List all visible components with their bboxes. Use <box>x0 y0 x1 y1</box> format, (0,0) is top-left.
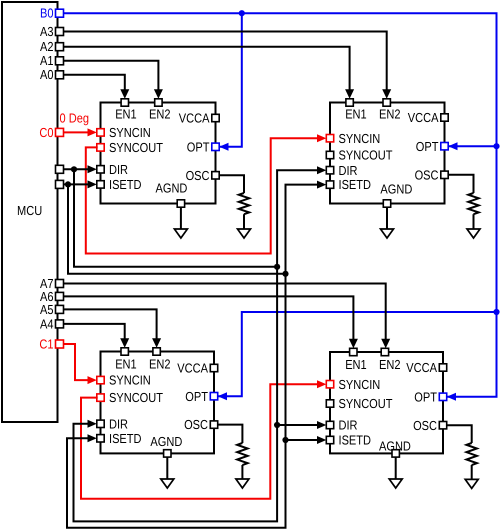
MCU pin C0 <box>39 125 63 140</box>
svg-text:OSC: OSC <box>413 418 437 433</box>
U2 pin DIR <box>326 163 357 178</box>
svg-text:A1: A1 <box>40 53 54 68</box>
wire U3 SYNCOUT to U4 SYNCIN <box>81 380 326 499</box>
wire A6 to U4 EN1 <box>63 296 358 348</box>
MCU pin A5 <box>40 302 64 317</box>
junction ISETD at MCU branch <box>65 181 71 187</box>
U2 pin ISETD <box>326 177 371 192</box>
U2 pin SYNCIN <box>326 131 380 146</box>
svg-text:AGND: AGND <box>380 181 412 196</box>
svg-text:ISETD: ISETD <box>109 431 142 446</box>
MCU pin B0 <box>40 6 64 21</box>
U3 pin AGND <box>150 434 182 457</box>
U1 pin EN1 <box>115 99 137 122</box>
wire MCU to U1 DIR <box>63 165 97 173</box>
svg-text:ISETD: ISETD <box>109 177 142 192</box>
wire A5 to U3 EN2 <box>63 309 161 347</box>
junction B0 branch at top <box>239 10 245 16</box>
junction DIR at MCU branch <box>71 166 77 172</box>
wire A2 to U2 EN1 <box>63 47 354 99</box>
U3 pin EN2 <box>149 348 171 372</box>
svg-text:OPT: OPT <box>187 139 210 154</box>
svg-text:SYNCIN: SYNCIN <box>339 377 381 392</box>
ground below R3 <box>236 479 249 488</box>
wire U3 AGND to ground <box>166 457 168 479</box>
U1 pin ISETD <box>97 177 142 192</box>
svg-text:DIR: DIR <box>109 416 128 431</box>
wire DIR branch to U4 DIR <box>277 421 326 429</box>
U2 pin EN1 <box>345 99 367 122</box>
svg-text:EN1: EN1 <box>345 107 367 122</box>
ground below U3 AGND <box>161 479 174 488</box>
svg-text:EN1: EN1 <box>345 357 367 372</box>
U1 pin AGND <box>156 181 188 208</box>
svg-text:VCCA: VCCA <box>408 110 439 125</box>
svg-text:0 Deg: 0 Deg <box>60 110 90 125</box>
junction B0 at U2 OPT tap <box>493 143 499 149</box>
svg-text:EN1: EN1 <box>115 107 137 122</box>
resistor R4 <box>467 443 477 465</box>
resistor R1 <box>239 193 249 214</box>
U1 pin VCCA <box>179 111 219 126</box>
wire DIR down around bottom to U3 DIR <box>74 267 278 522</box>
wire C0 to U1 SYNCIN <box>63 128 97 136</box>
wire B0 branch to U3 OPT <box>218 312 497 400</box>
dual-driver IC U3 body <box>101 352 215 454</box>
wire OSC to R1 <box>219 175 244 193</box>
junction DIR mid rail <box>274 264 280 270</box>
U3 pin OSC <box>184 417 218 432</box>
svg-text:VCCA: VCCA <box>179 111 210 126</box>
wire OSC to R4 <box>447 425 472 443</box>
U3 pin EN1 <box>115 348 137 372</box>
wire ISETD down around bottom to U3 ISETD <box>67 274 286 528</box>
svg-text:OPT: OPT <box>416 139 439 154</box>
ground below R1 <box>238 229 251 238</box>
resistor R2 <box>468 193 478 214</box>
junction ISETD at U4 tap <box>282 437 288 443</box>
U3 pin SYNCIN <box>97 373 151 388</box>
svg-text:VCCA: VCCA <box>177 361 208 376</box>
wire MCU to U1 ISETD <box>63 180 97 188</box>
svg-text:EN1: EN1 <box>115 357 137 372</box>
wire A4 to U3 EN1 <box>63 324 129 348</box>
svg-text:OPT: OPT <box>185 389 208 404</box>
U2 pin AGND <box>380 181 412 207</box>
wire R4 to ground <box>471 465 473 479</box>
wire OSC to R3 <box>218 425 243 443</box>
svg-text:AGND: AGND <box>379 438 411 453</box>
wire ISETD down and across below U1 <box>68 184 286 273</box>
svg-text:OSC: OSC <box>184 417 208 432</box>
junction DIR at U4 tap <box>274 422 280 428</box>
svg-text:VCCA: VCCA <box>406 360 437 375</box>
svg-text:EN2: EN2 <box>379 107 401 122</box>
svg-text:SYNCOUT: SYNCOUT <box>339 148 393 163</box>
wire OSC to R2 <box>448 175 473 193</box>
MCU pin A7 <box>40 276 64 291</box>
U4 pin AGND <box>379 438 411 457</box>
U4 pin DIR <box>326 418 357 433</box>
wire A1 to U1 EN2 <box>63 61 163 99</box>
svg-text:DIR: DIR <box>339 418 358 433</box>
svg-text:A0: A0 <box>40 67 54 82</box>
dual-driver IC U2 body <box>330 103 445 204</box>
junction B0 at U3 branch tap <box>493 309 499 315</box>
svg-text:ISETD: ISETD <box>339 433 372 448</box>
svg-text:SYNCOUT: SYNCOUT <box>109 140 163 155</box>
wire U1 SYNCOUT to U2 SYNCIN <box>86 134 326 253</box>
U4 pin ISETD <box>326 433 371 448</box>
wire DIR down and across below U1 <box>74 169 277 266</box>
wire B0 branch to U1 OPT <box>219 13 242 151</box>
svg-text:AGND: AGND <box>150 434 182 449</box>
MCU pin A4 <box>40 316 64 331</box>
svg-text:EN2: EN2 <box>149 107 171 122</box>
MCU pin aux y169 <box>56 165 64 173</box>
svg-text:SYNCIN: SYNCIN <box>109 125 151 140</box>
ground below R4 <box>465 479 478 488</box>
MCU pin aux y184 <box>56 180 64 188</box>
wire R2 to ground <box>473 214 475 229</box>
wire U4 AGND to ground <box>395 457 397 479</box>
svg-text:A5: A5 <box>40 302 54 317</box>
U1 pin OSC <box>186 168 220 183</box>
wire B0 net: MCU B0 along top and right side to U4 OPT <box>63 13 497 401</box>
wire A0 to U1 EN1 <box>63 75 129 99</box>
U3 pin DIR <box>97 416 128 431</box>
svg-text:SYNCOUT: SYNCOUT <box>109 390 163 405</box>
U2 pin OSC <box>415 167 449 182</box>
svg-text:DIR: DIR <box>339 163 358 178</box>
svg-text:B0: B0 <box>40 6 54 21</box>
resistor R3 <box>237 443 247 465</box>
MCU pin A6 <box>40 289 64 304</box>
U2 pin EN2 <box>379 99 401 122</box>
svg-text:OPT: OPT <box>414 389 437 404</box>
U2 pin SYNCOUT <box>326 148 392 163</box>
svg-text:A3: A3 <box>40 24 54 39</box>
U4 pin EN1 <box>345 348 367 372</box>
U1 pin EN2 <box>149 99 171 122</box>
wire U2 AGND to ground <box>386 207 388 229</box>
svg-text:OSC: OSC <box>415 167 439 182</box>
wire R3 to ground <box>241 465 243 479</box>
MCU pin A0 <box>40 67 64 82</box>
svg-text:SYNCIN: SYNCIN <box>339 131 381 146</box>
svg-text:ISETD: ISETD <box>339 177 372 192</box>
svg-text:SYNCIN: SYNCIN <box>109 373 151 388</box>
U4 pin SYNCIN <box>326 377 380 392</box>
U4 pin VCCA <box>406 360 446 375</box>
junction ISETD mid rail <box>282 271 288 277</box>
U4 pin OSC <box>413 418 447 433</box>
wire A3 to U2 EN2 <box>63 32 391 99</box>
svg-text:C0: C0 <box>39 125 53 140</box>
dual-driver IC U4 body <box>330 352 443 453</box>
U4 pin SYNCOUT <box>326 396 392 411</box>
ground below R2 <box>467 229 480 238</box>
svg-text:A2: A2 <box>40 39 54 54</box>
U2 pin OPT <box>416 139 448 154</box>
ground below U1 AGND <box>174 229 187 238</box>
svg-text:A4: A4 <box>40 316 54 331</box>
svg-text:C1: C1 <box>39 336 53 351</box>
ground below U4 AGND <box>389 479 402 488</box>
svg-text:SYNCOUT: SYNCOUT <box>339 396 393 411</box>
U3 pin VCCA <box>177 361 217 376</box>
svg-text:OSC: OSC <box>186 168 210 183</box>
U3 pin OPT <box>185 389 217 404</box>
MCU pin A1 <box>40 53 64 68</box>
U4 pin EN2 <box>379 348 401 372</box>
wire C1 to U3 SYNCIN <box>63 344 97 384</box>
wire R1 to ground <box>243 214 245 229</box>
U1 pin SYNCIN <box>97 125 151 140</box>
U4 pin OPT <box>414 389 446 404</box>
MCU pin A3 <box>40 24 64 39</box>
MCU U5 body <box>2 2 58 422</box>
label 0 Deg <box>60 110 90 125</box>
wire DIR up to U2 DIR <box>277 166 326 267</box>
wire A7 to U4 EN2 <box>63 284 390 349</box>
wire ISETD up to U2 ISETD <box>286 181 327 274</box>
svg-text:EN2: EN2 <box>149 357 171 372</box>
svg-text:DIR: DIR <box>109 162 128 177</box>
ground below U2 AGND <box>381 229 394 238</box>
wire U1 AGND to ground <box>180 207 182 229</box>
dual-driver IC U1 body <box>101 103 216 204</box>
U2 pin VCCA <box>408 110 448 125</box>
U1 pin DIR <box>97 162 128 177</box>
svg-text:EN2: EN2 <box>379 357 401 372</box>
wire ISETD branch to U4 ISETD <box>286 436 327 444</box>
U1 pin SYNCOUT <box>97 140 163 155</box>
U1 pin OPT <box>187 139 219 154</box>
U3 pin ISETD <box>97 431 142 446</box>
MCU pin C1 <box>39 336 63 351</box>
U3 pin SYNCOUT <box>97 390 163 405</box>
wire U2 OPT to right-side B0 line <box>448 142 496 150</box>
MCU pin A2 <box>40 39 64 54</box>
svg-text:AGND: AGND <box>156 181 188 196</box>
svg-text:MCU: MCU <box>17 203 42 218</box>
